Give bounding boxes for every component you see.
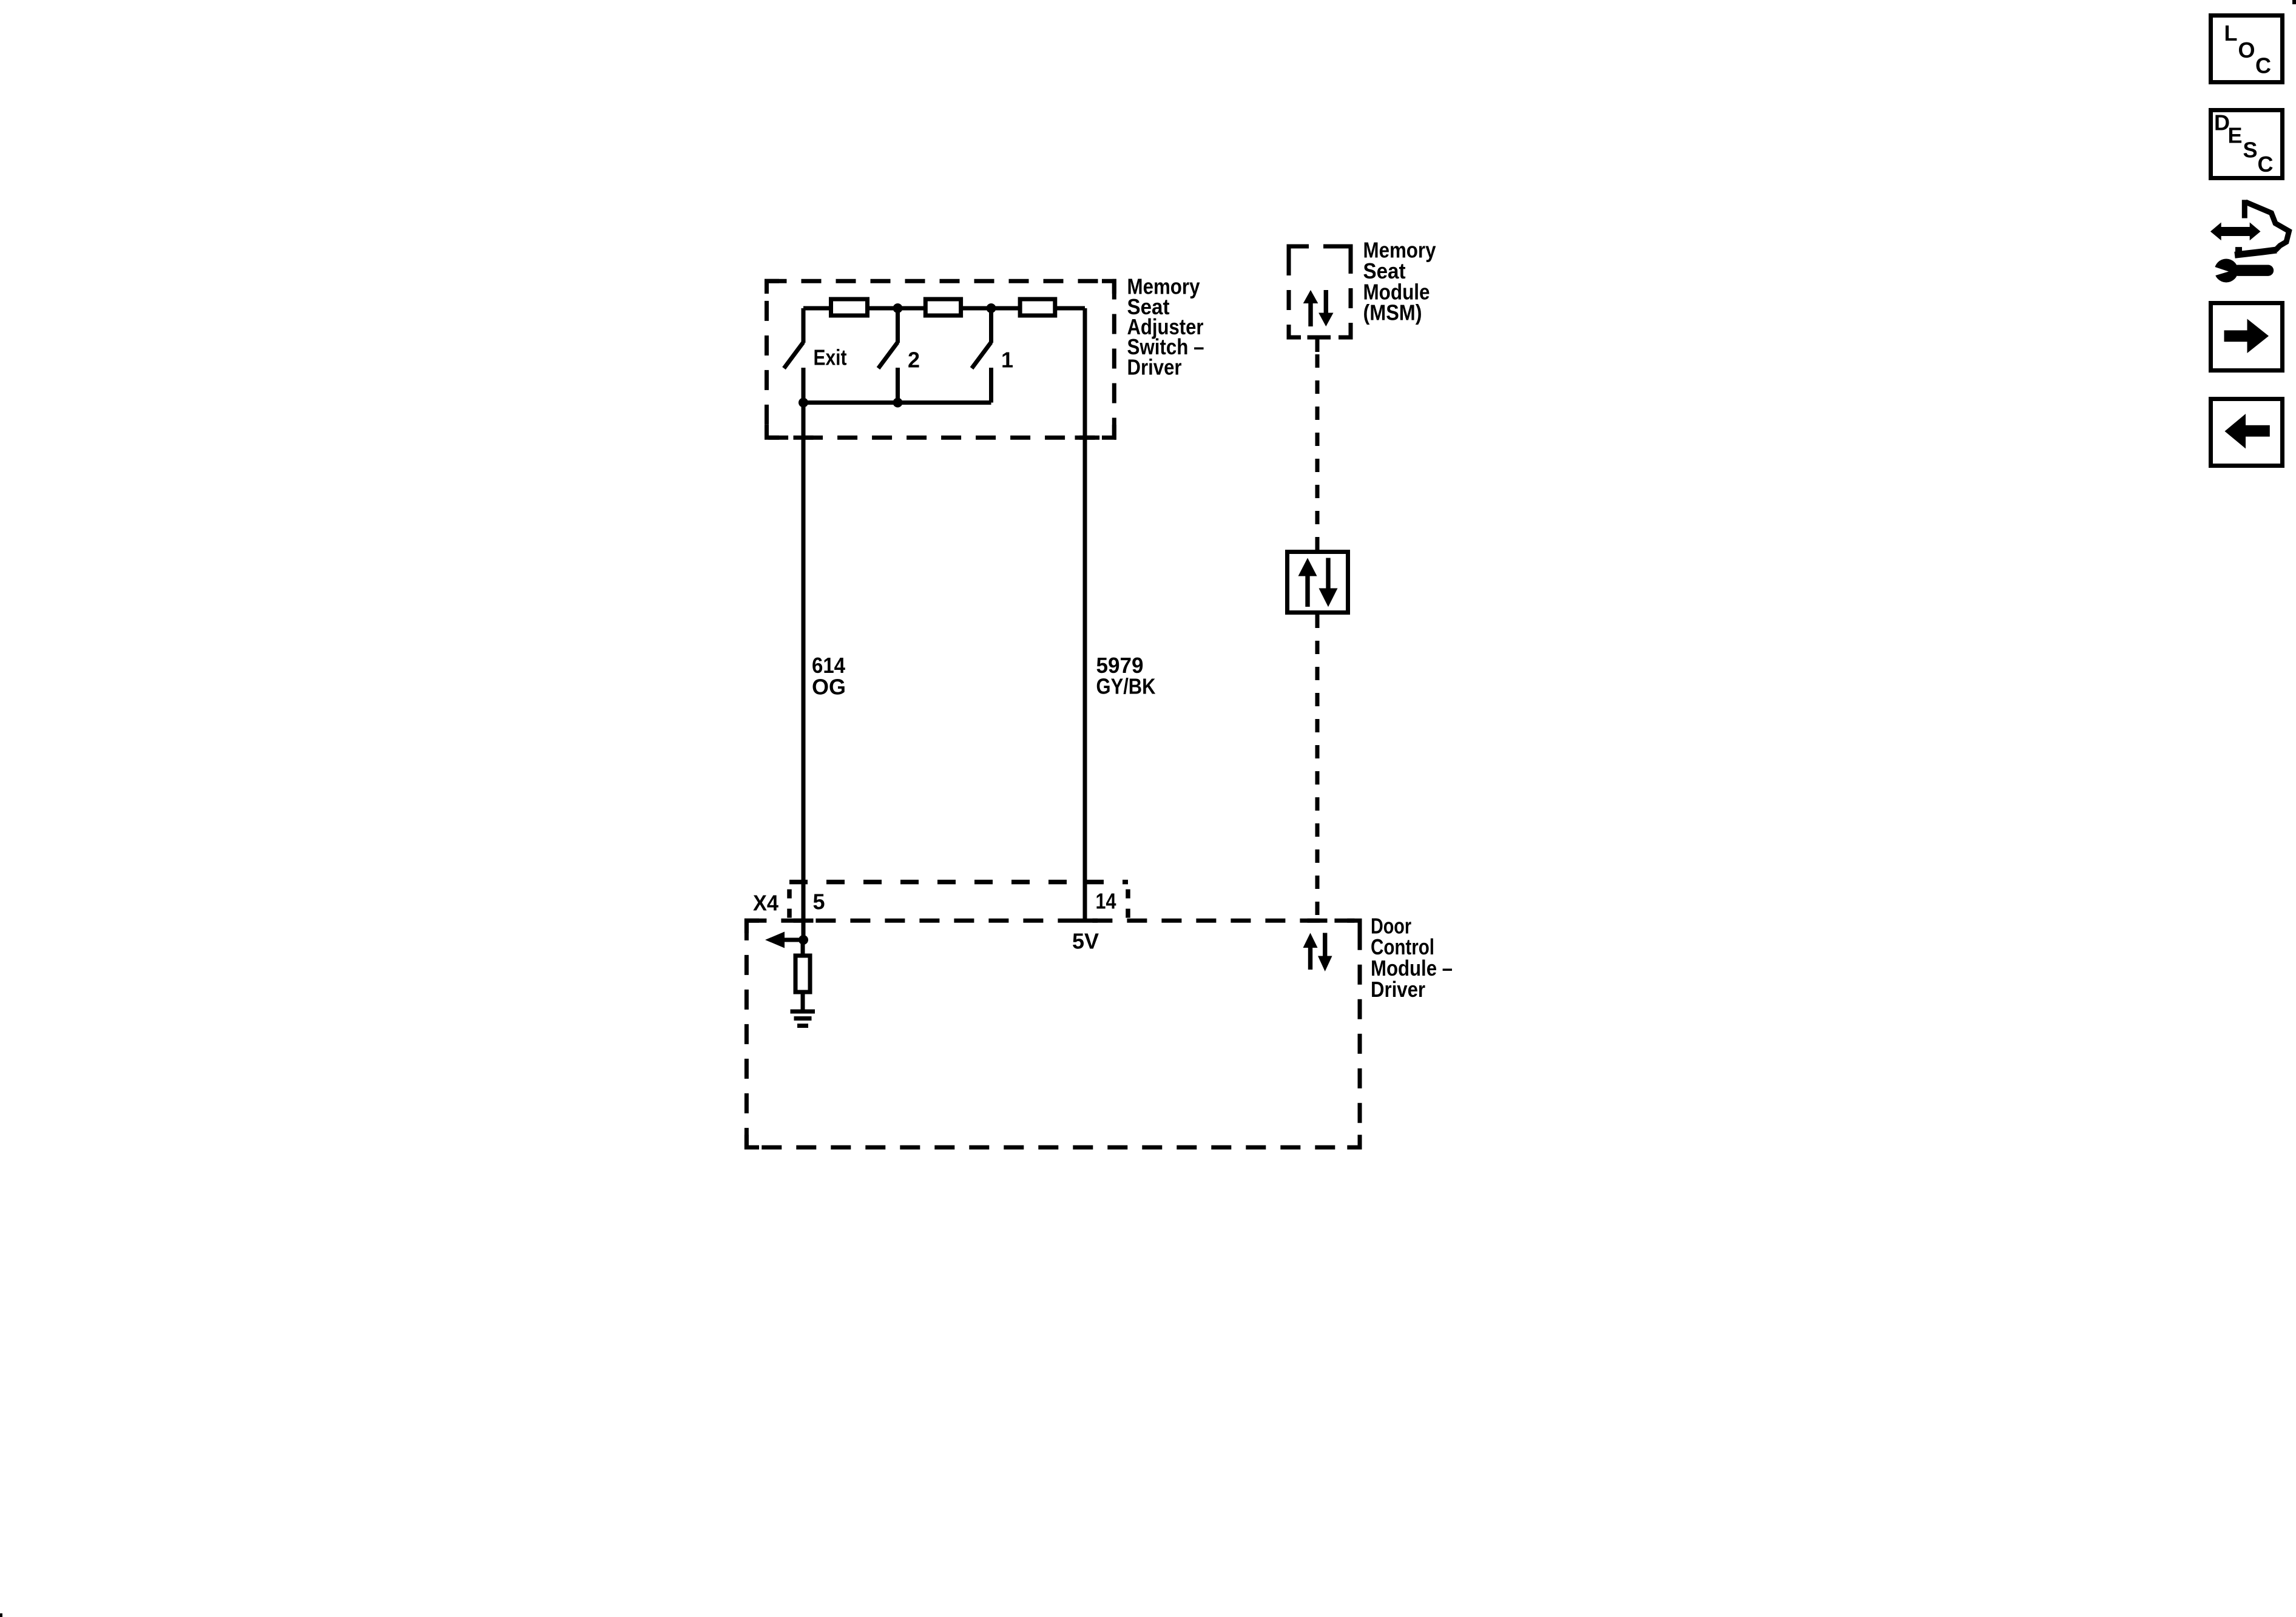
svg-text:Driver: Driver [1127, 354, 1182, 379]
svg-text:Driver: Driver [1371, 977, 1425, 1002]
svg-text:5: 5 [813, 890, 825, 914]
svg-text:GY/BK: GY/BK [1096, 674, 1156, 699]
svg-text:5V: 5V [1072, 929, 1099, 954]
svg-text:1: 1 [1001, 348, 1013, 373]
svg-text:E: E [2228, 123, 2243, 148]
svg-text:C: C [2255, 53, 2271, 78]
svg-text:O: O [2238, 38, 2255, 62]
svg-text:C: C [2258, 152, 2274, 177]
svg-text:OG: OG [812, 675, 846, 700]
svg-text:X4: X4 [753, 891, 778, 916]
svg-text:14: 14 [1096, 889, 1116, 914]
svg-text:S: S [2243, 138, 2258, 163]
svg-text:L: L [2224, 21, 2238, 46]
svg-text:(MSM): (MSM) [1363, 300, 1422, 325]
svg-text:2: 2 [908, 348, 920, 373]
svg-text:Exit: Exit [814, 345, 847, 370]
